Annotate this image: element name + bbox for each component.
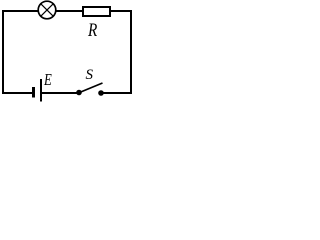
wire bottom-left (to battery) bbox=[2, 92, 32, 94]
wire bottom-mid (battery to switch) bbox=[41, 92, 79, 94]
label R bbox=[88, 21, 97, 40]
switch S left terminal bbox=[76, 90, 82, 96]
battery E short plate (negative) bbox=[32, 87, 35, 98]
label S bbox=[86, 68, 94, 83]
wire right bbox=[130, 10, 132, 94]
lamp L1 cross bbox=[41, 4, 53, 16]
wire left bbox=[2, 10, 4, 94]
switch S blade bbox=[80, 83, 103, 93]
lamp L1 circle bbox=[38, 1, 56, 19]
switch S right terminal bbox=[98, 90, 104, 96]
battery E long plate (positive) bbox=[40, 79, 42, 102]
wire top bbox=[2, 10, 131, 12]
label E bbox=[44, 71, 52, 88]
resistor R box bbox=[83, 7, 110, 16]
wire bottom-right (switch to corner) bbox=[101, 92, 132, 94]
